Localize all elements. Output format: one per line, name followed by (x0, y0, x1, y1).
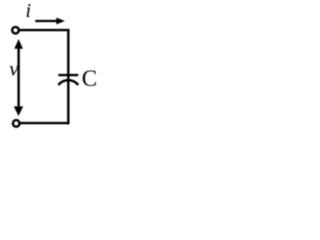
svg-text:v: v (9, 57, 19, 81)
voltage arrow v (double-headed) (14, 39, 23, 116)
wire right (capacitor bottom lead) (67, 80, 69, 124)
wire right (capacitor top lead) (67, 29, 69, 75)
svg-text:C: C (82, 66, 97, 91)
capacitor C (58, 75, 78, 85)
wire bottom (20, 122, 69, 124)
terminal top-left (open circle) (12, 27, 19, 34)
svg-text:i: i (26, 0, 32, 22)
current arrow (35, 18, 65, 25)
wire top (20, 29, 70, 31)
terminal bottom-left (open circle) (13, 120, 20, 127)
